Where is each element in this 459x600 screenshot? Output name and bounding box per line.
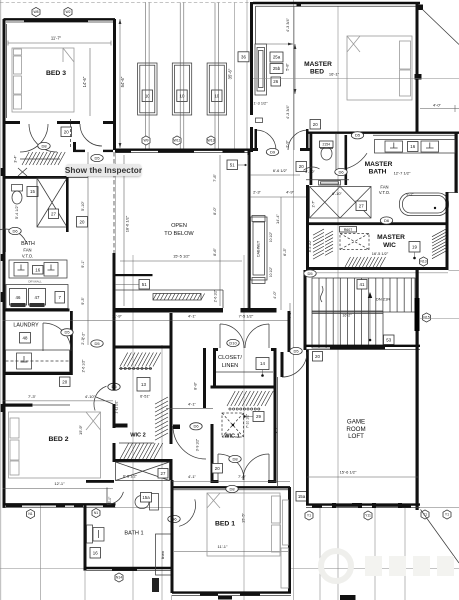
bed3 bottom wall seg3	[103, 121, 116, 124]
wic1 hooks	[229, 408, 260, 410]
svg-text:4'-10": 4'-10"	[85, 394, 96, 399]
grid vertical x338	[337, 6, 339, 600]
svg-text:2'-6 1/2": 2'-6 1/2"	[82, 359, 86, 373]
svg-text:6'-3": 6'-3"	[282, 248, 287, 256]
closet label	[218, 355, 242, 369]
svg-text:4'-3 3/4": 4'-3 3/4"	[286, 104, 290, 119]
grid line top dashed	[0, 2, 253, 4]
master top wall outer	[253, 2, 420, 4]
bed3 sheet fold	[63, 48, 74, 62]
wic2 hatch top	[119, 353, 161, 369]
door tag 20 box	[61, 127, 72, 137]
master door leaf R	[306, 129, 309, 150]
bed3 pillow	[14, 49, 22, 55]
svg-text:LOFT: LOFT	[348, 433, 364, 440]
bed1 left wall	[171, 480, 174, 593]
svg-text:8'-6": 8'-6"	[212, 248, 217, 256]
laundry sink	[17, 353, 32, 369]
svg-text:BATH: BATH	[369, 169, 387, 176]
bed3 right wall	[113, 19, 116, 150]
svg-text:20: 20	[80, 219, 85, 224]
hall cabinet bot shelf	[252, 278, 265, 284]
open rail band C	[113, 308, 277, 313]
tag 48 box	[20, 333, 31, 344]
left wall blocks	[1, 168, 5, 412]
tag R607	[340, 227, 357, 233]
svg-text:WIC: WIC	[383, 242, 396, 249]
mwic label	[377, 234, 405, 249]
bed3 top wall inner	[6, 21, 113, 23]
closet col vdim line	[289, 303, 291, 350]
strip bottom wall outer	[115, 148, 250, 150]
bath cabinet row	[6, 285, 68, 309]
svg-text:D5: D5	[307, 271, 313, 276]
svg-text:D10: D10	[229, 340, 237, 345]
hall cabinet top shelf	[252, 216, 265, 222]
svg-text:20: 20	[215, 466, 220, 471]
tag 51 leader	[238, 164, 247, 166]
svg-text:WIC 2: WIC 2	[130, 433, 146, 439]
tag D5 oval game	[290, 347, 302, 354]
hall vdim line x281	[280, 197, 282, 310]
laundry counter	[6, 350, 70, 372]
svg-text:53: 53	[386, 337, 391, 342]
wic1 wd dashed	[222, 413, 244, 437]
svg-text:6'-5 1/2": 6'-5 1/2"	[123, 475, 138, 479]
svg-text:11'-1": 11'-1"	[218, 544, 228, 549]
svg-text:W9: W9	[143, 139, 148, 143]
bed1 headboard	[272, 496, 281, 552]
hex tag N15	[423, 313, 431, 322]
grid horizontal y568	[0, 568, 172, 570]
dormer window 1 outer	[138, 63, 157, 115]
bath upper wall thin ext	[66, 177, 88, 179]
bath1 tub	[116, 462, 170, 481]
window tag hex 2	[173, 136, 181, 145]
wic2 top wall	[113, 346, 173, 349]
svg-text:6'-10": 6'-10"	[332, 192, 342, 196]
closet hatch top	[20, 152, 65, 165]
svg-text:3'-9 1/2": 3'-9 1/2"	[196, 438, 200, 451]
corridor dim line x88	[87, 152, 89, 345]
master left wall inner	[255, 6, 257, 44]
wic1 door left	[218, 454, 244, 480]
wic2 rod hooks	[120, 367, 152, 369]
mbath sink1	[385, 141, 403, 152]
svg-text:2'-9": 2'-9"	[286, 140, 290, 148]
wall x mark	[18, 168, 27, 176]
svg-text:4'-3 3/4": 4'-3 3/4"	[286, 17, 290, 32]
dormer window 1 tag 10	[142, 90, 152, 102]
svg-text:FAN: FAN	[23, 248, 31, 253]
svg-text:N1: N1	[94, 511, 98, 515]
game window ticks	[332, 503, 402, 508]
svg-text:linen: linen	[160, 551, 165, 559]
bed1 dresser2	[281, 548, 289, 588]
closet bottom wall	[211, 386, 277, 389]
hex tag Y11	[364, 511, 372, 520]
tag 27 box bath	[49, 209, 59, 219]
game bottom windows	[312, 503, 411, 508]
mbath mid wall	[306, 179, 349, 181]
grid y273 stairs	[306, 272, 448, 274]
bath sink1	[14, 263, 28, 277]
dormer window 2 centerlines	[180, 3, 184, 151]
open-below dim line	[120, 260, 242, 262]
svg-text:GAME: GAME	[347, 419, 365, 426]
svg-text:12'-7 1/2": 12'-7 1/2"	[394, 171, 411, 176]
tag 20 box left	[296, 162, 307, 172]
bed2 headboard	[10, 418, 19, 475]
svg-text:3'-10": 3'-10"	[305, 170, 315, 174]
grid x320 low	[319, 507, 321, 600]
bed3 hall door arc	[80, 124, 102, 146]
dormer window 3 tag 10	[212, 90, 222, 102]
closet column right wall	[288, 311, 291, 352]
svg-text:16'-1": 16'-1"	[329, 72, 340, 77]
bath1 bottom window	[112, 568, 137, 571]
svg-text:15: 15	[30, 189, 35, 194]
master right wall block	[415, 74, 422, 80]
dims y313	[3, 314, 291, 321]
tag 51 box upper	[227, 160, 238, 170]
open-below left wall solid	[113, 253, 116, 313]
svg-text:7'-5 1/2": 7'-5 1/2"	[239, 314, 254, 319]
grid vertical x40 lower	[40, 505, 42, 600]
svg-text:WIC 1: WIC 1	[224, 434, 240, 440]
svg-text:Y1: Y1	[445, 513, 449, 517]
tag 27 box tub	[158, 469, 168, 479]
open rail inner line	[115, 290, 223, 308]
bath upper wall	[3, 176, 67, 179]
svg-text:15'-5 1/2": 15'-5 1/2"	[173, 254, 190, 259]
mbath sink2	[421, 141, 439, 152]
svg-text:6'-51": 6'-51"	[140, 395, 150, 399]
svg-text:W11: W11	[174, 139, 181, 143]
tag 27 box mshower	[356, 201, 367, 211]
grid vertical x375 lower	[374, 505, 376, 600]
master bed pillow fold	[347, 36, 360, 52]
door tag D8 oval	[38, 142, 50, 149]
bottom black rect	[340, 595, 356, 600]
bath1 top wall piece	[86, 480, 114, 483]
svg-text:MASTER: MASTER	[304, 61, 332, 68]
tag D8 oval wic1	[229, 455, 241, 462]
tag D5 oval corridor	[91, 154, 103, 161]
tag 25b box	[270, 64, 283, 74]
hex tag Y1	[305, 511, 313, 520]
mwic island dashed	[340, 234, 369, 250]
bed2 top wall thin	[32, 404, 70, 406]
watermark circle	[321, 551, 351, 581]
bed3 double door left leaf	[20, 124, 48, 152]
svg-text:D5: D5	[94, 341, 100, 346]
laundry dash line	[6, 360, 70, 362]
right dim line y108	[420, 108, 459, 110]
tag 20 box bath	[77, 217, 88, 228]
grid x85 low	[84, 570, 86, 600]
corridor wall y150 a	[73, 150, 85, 152]
svg-text:11'-9": 11'-9"	[112, 314, 122, 319]
right lines low	[420, 271, 459, 319]
svg-text:1'-3 1/2": 1'-3 1/2"	[254, 102, 269, 106]
tag 26 box	[271, 77, 281, 86]
closet col wall	[203, 348, 206, 408]
svg-text:14'-6": 14'-6"	[82, 76, 87, 87]
bed2 dim line2	[3, 488, 114, 490]
bed3 dim line	[8, 42, 111, 44]
svg-text:5'-4 1/2": 5'-4 1/2"	[15, 204, 19, 219]
dormer window 3 centerlines	[215, 3, 219, 151]
watermark blocks	[365, 556, 382, 576]
dim line x120	[119, 19, 122, 148]
svg-text:20: 20	[62, 379, 67, 384]
dims top bed1	[172, 474, 290, 482]
wc toilet	[321, 142, 333, 161]
bed1 right wall	[288, 487, 291, 593]
grid y507 right	[420, 506, 459, 508]
mbath door arc	[336, 133, 367, 170]
bed3 vdim line	[89, 48, 91, 116]
tag 15a box right	[296, 492, 307, 502]
svg-text:BED 1: BED 1	[215, 521, 235, 528]
master bottom wall piece2	[300, 148, 310, 151]
roof diagonal	[423, 10, 459, 45]
tag 20 box stair	[313, 352, 323, 362]
svg-text:20: 20	[64, 129, 69, 134]
grid vertical x244	[243, 255, 245, 600]
svg-text:TO BELOW: TO BELOW	[164, 231, 194, 237]
svg-text:4'-9": 4'-9"	[286, 190, 294, 195]
master door left	[256, 130, 276, 150]
svg-text:OPEN: OPEN	[171, 223, 187, 229]
svg-text:14: 14	[260, 361, 265, 366]
svg-text:7'-0": 7'-0"	[238, 474, 247, 479]
mwic left hatch	[313, 229, 333, 259]
strip sill band3	[223, 150, 245, 153]
svg-text:1'-2": 1'-2"	[82, 332, 86, 340]
hex tag top W8	[32, 7, 40, 16]
master bed outline	[347, 36, 412, 100]
svg-text:MASTER: MASTER	[377, 234, 405, 241]
tag 51 box lower	[139, 280, 150, 290]
bath1 door arc	[107, 488, 123, 505]
svg-text:35'-6": 35'-6"	[228, 68, 233, 79]
grid vertical x162	[161, 345, 163, 600]
game right wall dark	[415, 298, 420, 331]
bath shower	[37, 178, 67, 227]
bed1 bed outline	[207, 493, 280, 556]
svg-text:D5: D5	[64, 330, 70, 335]
svg-text:D5: D5	[293, 348, 299, 353]
svg-text:N14: N14	[116, 576, 122, 580]
corridor wall y150 b	[103, 150, 113, 152]
tag D6 oval bath	[9, 227, 21, 234]
svg-text:W13: W13	[208, 139, 215, 143]
svg-text:W8: W8	[33, 10, 38, 14]
master dim line y44	[256, 43, 293, 46]
hex tag N1	[27, 509, 35, 518]
svg-text:R607: R607	[344, 228, 353, 232]
svg-text:6'-6 1/2": 6'-6 1/2"	[273, 168, 288, 173]
tag D6 oval mwic	[380, 217, 392, 224]
svg-text:2'-7": 2'-7"	[312, 200, 316, 208]
bed3 top wall outer	[4, 18, 116, 20]
mbath tub	[400, 193, 449, 216]
grid y507 mid	[116, 506, 173, 508]
tag 16 box bath	[33, 266, 44, 275]
svg-text:7'-10 1/2": 7'-10 1/2"	[246, 413, 250, 428]
svg-text:V.T.O.: V.T.O.	[379, 190, 390, 195]
hall dim line y197	[250, 196, 306, 198]
master top corner block	[297, 2, 302, 7]
grid line y78.5 master	[253, 78, 459, 80]
master cabinet builtin	[255, 44, 267, 95]
svg-text:8'-0": 8'-0"	[212, 207, 217, 215]
bed1 door arc	[179, 499, 195, 526]
corridor wall stub v	[73, 142, 76, 152]
wic1 hatch	[227, 391, 273, 406]
wic2 right hatch	[155, 397, 168, 440]
open-below label	[164, 223, 194, 237]
svg-text:2'-6 1/2": 2'-6 1/2"	[214, 289, 218, 302]
bed2 bottom wall outer	[3, 503, 116, 505]
bath door arc	[0, 229, 26, 252]
tag D5 oval closet	[190, 423, 202, 430]
mbath right step	[448, 192, 458, 194]
svg-text:MASTER: MASTER	[365, 161, 393, 168]
bath1 west wall	[84, 505, 87, 570]
hex tag right2	[443, 510, 451, 519]
svg-text:BATH: BATH	[21, 241, 35, 247]
bed2 pillow fold	[86, 412, 101, 430]
svg-text:BED: BED	[310, 69, 324, 76]
tag 14 box	[256, 358, 269, 370]
tag D6 oval hall2	[108, 383, 120, 390]
dormer window 2 tag 10	[177, 90, 187, 102]
dormer window 1 inner	[140, 65, 155, 113]
svg-text:51: 51	[142, 282, 147, 287]
tag 36 box	[238, 52, 249, 62]
chimney block	[152, 578, 159, 592]
hex tag right1	[421, 510, 429, 519]
master vdim x295	[294, 44, 297, 94]
left outer wall	[3, 118, 6, 508]
closet shelf line	[216, 371, 273, 373]
tag D8 oval bed1	[226, 485, 238, 492]
tag D10 oval	[227, 339, 239, 346]
svg-text:D6: D6	[338, 169, 344, 174]
bed3 left wall inner line	[6, 24, 8, 118]
svg-text:9'-2": 9'-2"	[406, 193, 414, 197]
stair landing dbl	[312, 311, 383, 314]
stair curve arrow	[320, 286, 323, 302]
svg-text:5'-10": 5'-10"	[81, 201, 85, 211]
bath1 toilet2	[87, 525, 105, 543]
svg-text:N13: N13	[420, 260, 426, 264]
left door arc closet col	[173, 426, 206, 459]
tag 29 leader	[243, 415, 253, 417]
roof diagonal low	[421, 510, 459, 564]
svg-text:7'-3": 7'-3"	[28, 394, 37, 399]
tag 41 box	[357, 280, 367, 290]
master bed room label	[304, 61, 332, 76]
grid vertical x133	[132, 255, 134, 600]
game top wall	[306, 346, 420, 350]
tag 25a box	[270, 52, 283, 62]
master door right	[288, 130, 308, 150]
master left wall	[250, 2, 253, 152]
svg-text:19: 19	[412, 244, 417, 249]
closet double door left	[220, 324, 244, 348]
svg-text:D5: D5	[355, 133, 361, 138]
svg-text:DRYWALL: DRYWALL	[28, 280, 42, 284]
svg-text:4'-1": 4'-1"	[188, 314, 197, 319]
tag D9 oval	[266, 148, 278, 155]
laundry door arc	[43, 323, 71, 351]
grid vertical left edge	[0, 0, 2, 600]
svg-text:LAUNDRY: LAUNDRY	[13, 323, 39, 329]
master wall opening	[249, 115, 255, 127]
svg-text:11'-7": 11'-7"	[51, 36, 62, 41]
svg-text:N15: N15	[423, 316, 429, 320]
tag 47 box	[29, 289, 46, 308]
svg-text:4'-0": 4'-0"	[433, 103, 442, 108]
svg-text:20: 20	[313, 122, 318, 127]
svg-text:CLOSET/: CLOSET/	[218, 355, 242, 361]
master dim line x294	[293, 6, 295, 150]
svg-text:15'-6 1/2": 15'-6 1/2"	[340, 470, 357, 475]
bed1 dim line	[174, 551, 288, 553]
svg-text:16'-5 1/2": 16'-5 1/2"	[372, 251, 389, 256]
window tag hex 1	[142, 136, 150, 145]
svg-text:48: 48	[23, 335, 28, 340]
dim line y408	[166, 407, 213, 409]
svg-text:3'-4": 3'-4"	[14, 155, 18, 163]
tag 16 box mbath	[408, 142, 419, 152]
tag 20 box laundry	[60, 377, 71, 387]
wic2 hatch bottom	[119, 443, 163, 459]
svg-text:15a: 15a	[142, 495, 150, 500]
open rail seg A	[113, 274, 153, 276]
hall strip east line	[277, 377, 279, 487]
wic2 bottom wall	[113, 459, 173, 462]
svg-text:15'-5": 15'-5"	[241, 512, 246, 523]
svg-text:D6: D6	[12, 228, 18, 233]
tag D6 oval bed1	[168, 515, 180, 522]
svg-text:41: 41	[360, 282, 365, 287]
bath1 toilet	[135, 494, 159, 511]
svg-text:4'-0": 4'-0"	[272, 291, 277, 299]
bath1 bottom wall inner	[84, 570, 173, 572]
svg-text:D8: D8	[41, 143, 47, 148]
attic dashed line	[70, 119, 72, 149]
svg-text:7'-8": 7'-8"	[212, 174, 217, 182]
mwic bottom hatch	[345, 257, 386, 267]
svg-text:25a: 25a	[273, 55, 281, 60]
svg-text:10 1/2": 10 1/2"	[269, 231, 273, 242]
svg-text:12'-1": 12'-1"	[54, 481, 65, 486]
tag 51 leader2	[115, 284, 139, 286]
mbath vanity	[375, 140, 456, 154]
hall-game door leaf	[281, 352, 284, 377]
linen closet	[156, 534, 172, 575]
wic1 bottom wall stubs	[211, 480, 277, 483]
wic1 left wall	[211, 424, 214, 480]
bed2 bottom wall inner	[3, 506, 116, 508]
grid x172 low	[171, 595, 173, 600]
tag 20 box wic1	[212, 464, 223, 474]
